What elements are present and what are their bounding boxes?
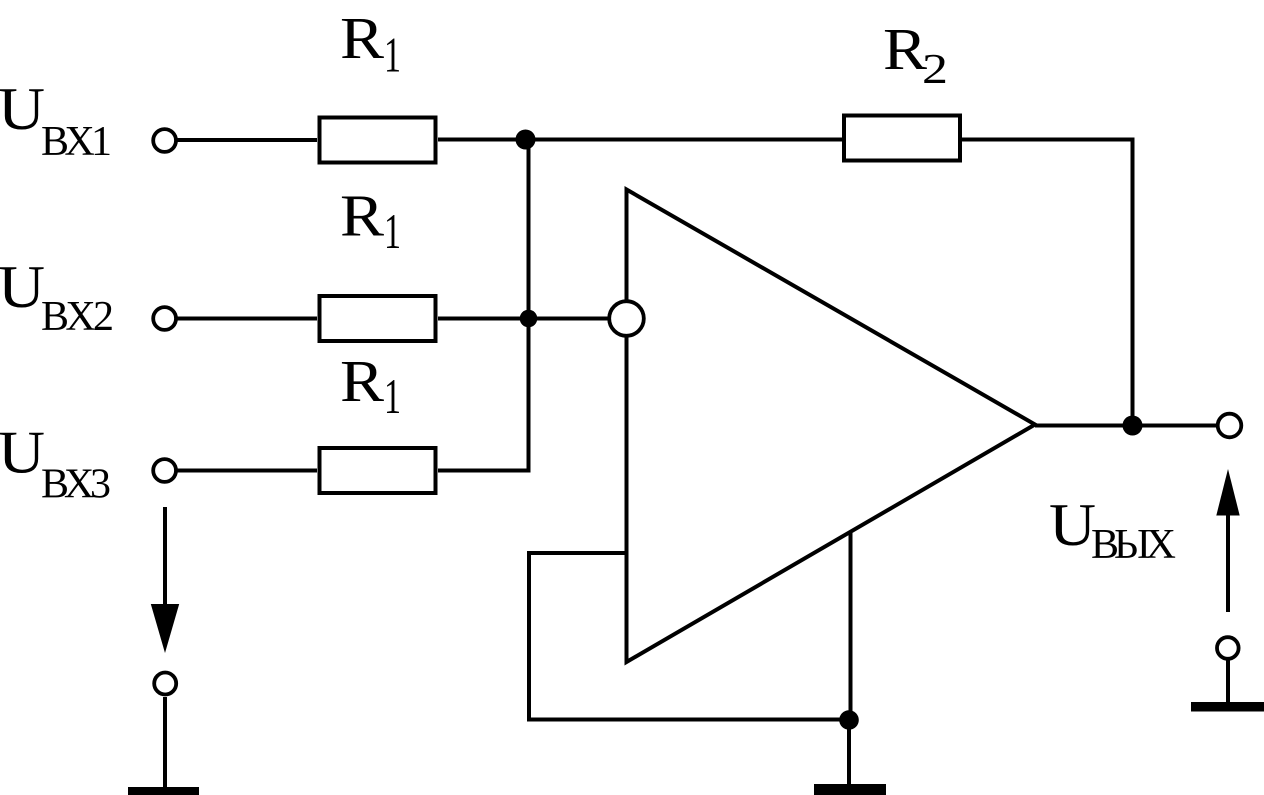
svg-text:U: U	[1049, 492, 1096, 558]
svg-text:ВХ1: ВХ1	[41, 119, 112, 165]
svg-text:1: 1	[384, 368, 401, 424]
svg-text:R: R	[340, 348, 385, 414]
svg-text:R: R	[883, 16, 928, 82]
svg-text:R: R	[340, 5, 385, 71]
svg-text:ВХ2: ВХ2	[41, 294, 114, 340]
svg-text:ВХ3: ВХ3	[41, 462, 111, 508]
svg-text:ВЫХ: ВЫХ	[1091, 522, 1176, 568]
svg-text:U: U	[0, 76, 45, 142]
svg-text:2: 2	[922, 47, 948, 93]
svg-text:1: 1	[384, 203, 401, 259]
svg-text:R: R	[340, 183, 385, 249]
svg-text:U: U	[0, 420, 45, 486]
svg-text:1: 1	[384, 27, 401, 83]
svg-text:U: U	[0, 254, 45, 320]
